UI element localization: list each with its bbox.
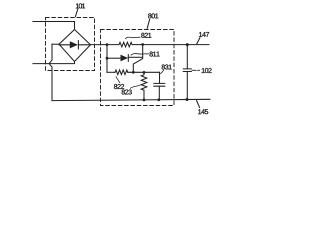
wire diode branch anode [107, 57, 121, 59]
wire left AC input [33, 62, 75, 64]
resistor R821 [119, 42, 132, 47]
diode D811 triangle [121, 55, 129, 62]
node junction C831 bottom [157, 98, 160, 101]
wire node X down dogleg to branch 3 [133, 45, 142, 73]
capacitor C102 top lead [186, 45, 188, 69]
node junction diode branch [106, 57, 109, 60]
dashed box 101 [46, 18, 95, 71]
capacitor C102 plates [183, 69, 191, 72]
label 822 [114, 77, 124, 89]
bridge diode bar and lines [59, 41, 91, 49]
diode D811 cathode bar [127, 55, 129, 62]
node junction C102 bottom [186, 98, 189, 101]
bridge rectifier diamond 101 [59, 30, 91, 62]
label 831 [161, 65, 172, 74]
wire left bus vertical [106, 45, 108, 73]
wire left vertex stub [52, 43, 60, 45]
wire diode cathode to vertical [128, 56, 142, 58]
label 811 [131, 52, 160, 57]
resistor R823 vertical [141, 72, 147, 100]
label 801 [147, 13, 158, 28]
wire branch 3 [128, 71, 160, 73]
wire bottom rail [52, 99, 210, 100]
bridge diode triangle [70, 41, 78, 48]
capacitor C831 plates [154, 83, 165, 86]
wire top AC input [33, 22, 75, 30]
wire branch 3 left corner [107, 71, 115, 73]
node B junction [143, 71, 146, 74]
label 102 [192, 68, 212, 73]
node junction capacitor 102 top [186, 43, 189, 46]
wire output rail 147 [143, 44, 209, 46]
resistor R822 [115, 70, 128, 75]
capacitor C102 bottom lead [186, 72, 188, 100]
wire left vertex vertical with hop [49, 44, 52, 100]
label 147 [197, 32, 209, 44]
capacitor C831 top lead [159, 72, 161, 83]
wire top branch to node X [132, 44, 143, 46]
node X junction [141, 43, 144, 46]
node A junction [132, 71, 135, 74]
dashed box 801 [101, 30, 175, 106]
label 821 [126, 33, 152, 39]
label 823 [122, 85, 141, 95]
label 101 [75, 3, 85, 16]
node junction R823 bottom [143, 99, 146, 102]
node junction at left bus top [106, 43, 109, 46]
label 145 [197, 101, 209, 115]
capacitor C831 bottom lead [158, 86, 160, 100]
wire bridge output to box 801 [91, 44, 120, 46]
